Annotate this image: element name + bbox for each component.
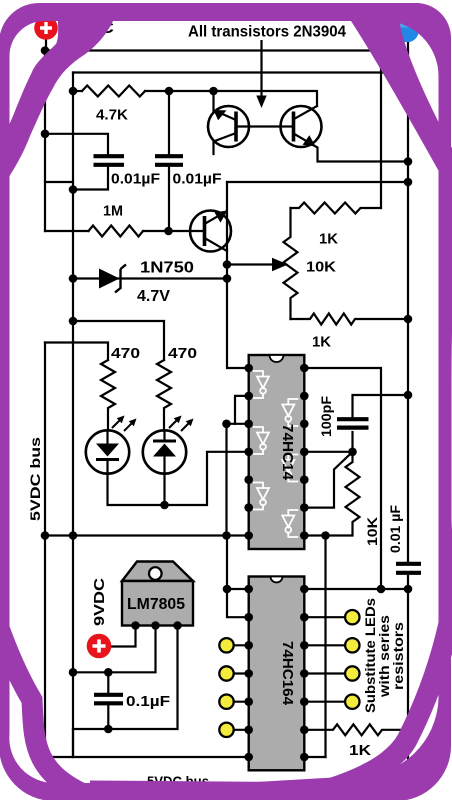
junction right bus / 1K lower: [404, 315, 413, 324]
arrow pot wiper head: [272, 258, 288, 271]
transistor Q2: [281, 106, 322, 147]
IC U2 74HC164 body: [249, 577, 305, 771]
wire 1M right lead to Q3 base: [143, 230, 205, 232]
wire 100pF bottom lead: [351, 432, 353, 452]
wire 74HC14 pin14 row to Vcc column: [304, 368, 381, 589]
potentiometer 10K body: [284, 208, 298, 319]
svg-text:0.01µF: 0.01µF: [111, 172, 160, 188]
junction Q3 collector / zener: [223, 274, 232, 283]
junction 4.7K row / C2: [165, 87, 174, 96]
wire pot wiper: [227, 263, 274, 265]
wire 1M jog to ground column: [45, 181, 73, 183]
node 9VDC positive terminal (red) lead: [45, 39, 47, 51]
wire 74HC14 pin9 diagonal jog: [304, 452, 352, 508]
wire 100pF top branch: [353, 395, 409, 417]
IC U1 74HC14 body: [249, 355, 305, 549]
wire ground mid rail: [45, 534, 249, 536]
wire Q2 collector lead: [294, 106, 317, 119]
svg-text:0.01 µF: 0.01 µF: [388, 505, 403, 553]
svg-text:10K: 10K: [306, 259, 336, 276]
svg-text:5VDC bus: 5VDC bus: [27, 437, 43, 521]
wire LM7805 pin3 output lead: [73, 626, 178, 730]
svg-text:0.01µF: 0.01µF: [173, 172, 222, 188]
wire left yellow LED leads: [234, 644, 249, 646]
junction C5 top: [104, 668, 113, 677]
wire C1 top branch: [45, 134, 108, 154]
wire C5 bottom lead: [107, 704, 109, 730]
resistor 4.7K zigzag: [82, 86, 145, 97]
wire LM7805 pin2 ground lead: [73, 626, 156, 673]
junction mid rail / feedback column: [222, 531, 231, 540]
arrow from label to transistors: [256, 40, 266, 108]
wire left 5VDC bus lower segment: [44, 343, 46, 758]
wire 74HC14 pin2 pin3 jog: [235, 396, 249, 424]
junction right bus / Q2 emitter: [404, 157, 413, 166]
IC U2 pin dots: [244, 585, 308, 762]
junction 74HC164 pin1 column: [223, 585, 232, 594]
junction bus / C1 branch: [41, 130, 50, 139]
junction ground column / LM7805 pin2: [69, 668, 78, 677]
junction ground column / 4.7K: [69, 87, 78, 96]
svg-text:Substitute LEDs: Substitute LEDs: [363, 598, 378, 713]
wire 74HC164 right pin rows to LEDs: [304, 616, 345, 618]
capacitor C4 0.01uF plates on right bus: [396, 564, 421, 573]
svg-text:with series: with series: [377, 615, 392, 698]
resistor 470 right: [157, 360, 171, 430]
node battery positive red circle top: [34, 16, 58, 40]
junction ground column / zener: [69, 274, 78, 283]
svg-text:470: 470: [168, 345, 197, 362]
svg-text:1K: 1K: [312, 334, 331, 351]
resistor 1K upper zigzag: [291, 203, 382, 214]
svg-text:1K: 1K: [319, 231, 338, 248]
svg-text:1N750: 1N750: [140, 260, 194, 277]
regulator U3 LM7805: [122, 562, 193, 630]
junction 100pF / 10K / pin4R: [348, 448, 357, 457]
LED D2: [143, 430, 186, 473]
svg-text:1M: 1M: [103, 203, 123, 220]
transistor Q1: [208, 106, 249, 147]
resistor 1K lower zigzag: [291, 314, 409, 325]
capacitor C5 0.1uF plates: [94, 695, 123, 704]
wire right bus upper: [407, 37, 409, 561]
IC U1 pin dots: [244, 364, 308, 540]
wire bottom 5VDC bus rail left: [45, 756, 249, 758]
yellow LED column left: [219, 638, 233, 737]
wire 470 rail: [73, 321, 164, 360]
LED D1: [86, 430, 129, 473]
svg-text:4.7K: 4.7K: [96, 107, 128, 124]
node battery negative blue circle top right: [395, 19, 419, 43]
wire 4.7K output row: [145, 91, 317, 106]
junction right bus / Q3 emitter: [404, 178, 413, 187]
node 9VDC red circle bottom: [87, 634, 112, 659]
wire top 9VDC rail: [45, 49, 408, 51]
wire Q1 Q2 base link: [236, 125, 294, 127]
wire C2 bottom lead: [168, 167, 170, 231]
junction 10K bottom drop: [321, 531, 330, 540]
LED D1 light arrows: [112, 416, 137, 432]
wire C2 top lead: [168, 91, 170, 154]
junction C5 bottom / 5V out: [104, 725, 113, 734]
wire left 5VDC bus upper segment: [44, 51, 46, 232]
junction right bus / Vcc row: [404, 585, 413, 594]
zener diode 1N750: [99, 265, 126, 293]
wire LED cathode rail: [108, 452, 249, 505]
node 5V output junction column: [72, 729, 74, 757]
wire 74HC14 pin3 row: [227, 423, 249, 425]
wire 74HC164 Vcc row: [304, 588, 408, 590]
junction ground column / mid rail: [69, 531, 78, 540]
svg-text:74HC164: 74HC164: [279, 641, 296, 706]
junction 1M / C2 / Q3 base: [164, 227, 173, 236]
svg-text:10K: 10K: [364, 517, 380, 546]
wire Q3 emitter row: [205, 212, 227, 225]
wire LED2 cathode lead: [163, 474, 165, 505]
svg-text:LM7805: LM7805: [127, 596, 185, 613]
wire zener row: [73, 277, 227, 279]
wire 74HC164 pin1 row: [227, 588, 249, 590]
junction bus / ground mid rail: [41, 531, 50, 540]
svg-text:74HC14: 74HC14: [279, 424, 296, 481]
junction LED cathode rail: [160, 501, 169, 510]
wire 10K junction drop column: [324, 536, 326, 758]
wire ground top rail: [73, 71, 408, 73]
wire Q1 collector stub: [214, 133, 237, 154]
junction 74HC14 pin3 feedback: [222, 420, 231, 429]
svg-text:4.7V: 4.7V: [137, 288, 171, 305]
svg-text:1K: 1K: [349, 742, 371, 759]
capacitor C1 0.01uF plates: [94, 156, 125, 165]
wire ground left column: [72, 73, 74, 758]
wire bottom 5VDC bus rail right: [304, 756, 325, 758]
svg-text:470: 470: [111, 345, 140, 362]
wire feedback column: [225, 424, 227, 536]
wire 1K upper to 9V rail: [380, 38, 382, 208]
wire LM7805 pin1 lead to 9V: [111, 626, 136, 647]
junction 9V rail / bus: [41, 46, 50, 55]
svg-text:resistors: resistors: [391, 622, 406, 690]
junction ground column / 470 rail: [69, 317, 78, 326]
wire 1M left lead: [45, 230, 89, 232]
resistor 10K right: [304, 452, 359, 536]
wire 74HC14 pin11 row: [304, 451, 352, 453]
resistor 470 left: [101, 360, 115, 430]
wire Q1 emitter lead: [212, 91, 214, 112]
resistor 1K bottom zigzag: [304, 724, 408, 735]
wire C5 top lead: [107, 672, 109, 694]
junction right bus / 100pF branch: [404, 391, 413, 400]
IC U1 inverter gate symbols: [253, 371, 298, 537]
wire 74HC164 pin1 pin2 jog: [227, 536, 249, 618]
transistor Q3: [190, 211, 231, 252]
wire right bus lower: [407, 576, 409, 773]
junction Q3 collector / pot wiper: [223, 260, 232, 269]
svg-text:All transistors 2N3904: All transistors 2N3904: [188, 24, 346, 41]
capacitor C3 100pF plates: [337, 419, 369, 427]
junction ground column / C1 bottom: [69, 185, 78, 194]
junction 4.7K row / Q1: [209, 87, 218, 96]
resistor 1M zigzag: [89, 226, 144, 237]
yellow LED column right: [345, 610, 359, 709]
wire 470 left bracket: [45, 343, 108, 361]
capacitor C2 0.01uF plates: [155, 156, 183, 165]
wire Q2 emitter row: [294, 134, 409, 162]
purple frame swoosh top right taper: [345, 12, 452, 195]
wire 4.7K left lead: [73, 90, 82, 92]
wire Q3 collector column to 74HC14 pin 1: [205, 238, 228, 251]
wire C1 bottom branch: [73, 167, 108, 190]
LED D2 light arrows: [169, 416, 194, 432]
svg-text:9VDC: 9VDC: [91, 578, 108, 626]
junction Vcc column / 164 row: [377, 585, 386, 594]
svg-text:100pF: 100pF: [319, 396, 334, 437]
svg-text:0.1µF: 0.1µF: [126, 694, 170, 710]
